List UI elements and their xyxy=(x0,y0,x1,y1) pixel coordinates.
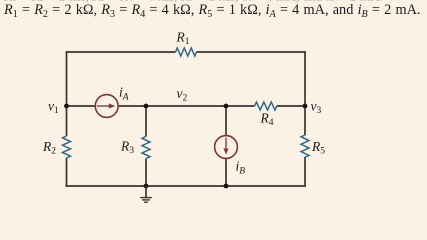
wire top left segment xyxy=(66,51,176,53)
wire middle iA to R4 xyxy=(118,105,255,107)
wire R3 branch upper xyxy=(145,106,147,137)
resistor R2 xyxy=(63,136,71,158)
resistor R5 xyxy=(301,135,309,157)
wire right vertical lower xyxy=(304,157,306,187)
resistor R3 xyxy=(142,137,150,159)
svg-text:R1 = R2 = 2 kΩ, R3 = R4 = 4 kΩ: R1 = R2 = 2 kΩ, R3 = R4 = 4 kΩ, R5 = 1 k… xyxy=(3,2,420,20)
wire R3 branch lower xyxy=(145,159,147,187)
current source iA xyxy=(95,95,118,118)
wire bottom xyxy=(66,185,306,187)
node v3 dot xyxy=(303,104,308,109)
node dot R3 top xyxy=(144,104,149,109)
resistor R1 xyxy=(176,48,197,56)
node dot ground xyxy=(144,184,149,189)
wire top right segment xyxy=(197,51,306,53)
node dot iB bottom xyxy=(224,184,229,189)
wire left vertical upper xyxy=(66,51,68,136)
wire iB branch lower xyxy=(225,158,227,186)
clipped previous text line fragment at top xyxy=(3,0,383,4)
wire right vertical upper xyxy=(304,51,306,135)
wire left vertical lower xyxy=(66,158,68,187)
node dot iB top xyxy=(224,104,229,109)
ground xyxy=(140,186,152,202)
wire iB branch upper xyxy=(225,106,227,136)
wire middle right of R4 xyxy=(277,105,305,107)
node v1 dot xyxy=(64,104,69,109)
wire middle left of iA xyxy=(67,105,96,107)
current source iB xyxy=(215,136,238,159)
resistor R4 xyxy=(255,102,277,110)
